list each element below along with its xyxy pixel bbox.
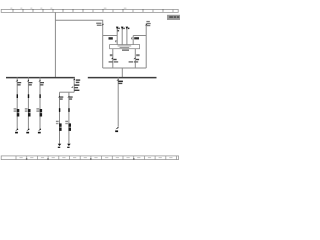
connector on branch drop (lower) xyxy=(71,86,73,88)
connector W4 xyxy=(58,96,60,98)
subcircuit bottom wire xyxy=(103,67,147,69)
relay subcircuit right rail xyxy=(145,24,147,69)
right output connector xyxy=(133,57,135,59)
fuse F1 body xyxy=(17,109,20,112)
arrow end xyxy=(67,144,71,146)
grey title box E1 xyxy=(167,15,180,20)
mid column F4 (x=59.5) xyxy=(56,92,63,148)
top terminal strip X1 xyxy=(1,9,178,12)
arrow end xyxy=(58,144,62,146)
input arrow stub 1 xyxy=(116,29,118,45)
module label below xyxy=(122,49,129,51)
fuse F5 label xyxy=(65,121,68,122)
wire: center drop to bus xyxy=(121,68,123,77)
control column below bus (x=118.2) xyxy=(115,77,123,132)
fuse F5 body xyxy=(69,123,72,126)
relay module box K1 xyxy=(110,45,140,49)
input arrow stub 2 xyxy=(121,29,123,45)
pin mark xyxy=(39,94,40,98)
connector W6 xyxy=(116,79,118,81)
wire: feeder horizontal to relay rail xyxy=(55,20,102,24)
left output value text xyxy=(109,61,119,62)
output drop left xyxy=(112,49,114,68)
connector W1 xyxy=(16,80,18,82)
fuse F4 label xyxy=(56,121,59,122)
pin label A2 xyxy=(134,37,139,39)
branch column F2 (x=28.4) xyxy=(25,77,33,133)
left rail connector label xyxy=(96,23,101,26)
connector W2 xyxy=(27,80,29,82)
pin mark xyxy=(59,108,60,112)
input arrow stub 3 xyxy=(126,29,128,45)
output drop right xyxy=(134,49,136,68)
connector W3 xyxy=(38,80,40,82)
pin mark xyxy=(68,108,69,112)
sheet-exit arrow xyxy=(115,127,118,130)
connector on stem 1 xyxy=(115,40,118,42)
bottom strip divider knobs xyxy=(26,158,135,160)
pin mark xyxy=(28,94,29,98)
connector on right pin xyxy=(131,37,134,39)
pin wire right (rail to A2) xyxy=(133,35,146,37)
fuse F4 body xyxy=(59,123,62,126)
connector on branch drop (upper) xyxy=(73,79,75,81)
sheet-exit arrow xyxy=(27,128,30,131)
mid column F5 (x=68.9) xyxy=(65,92,72,148)
fuse F3 label xyxy=(36,108,39,109)
module text xyxy=(118,45,132,48)
fuse F3 body xyxy=(40,109,43,112)
main bus segment 1 xyxy=(6,77,75,79)
right rail connector label xyxy=(146,21,150,26)
main bus segment 2 xyxy=(88,77,157,79)
branch horizontal wire xyxy=(60,91,75,93)
fuse F1 label xyxy=(14,108,17,109)
connector W5 xyxy=(67,96,69,98)
left output label xyxy=(110,54,113,56)
bottom terminal strip X2 xyxy=(1,156,178,160)
pin label A1 xyxy=(109,37,113,39)
left rail plug connector xyxy=(101,24,103,26)
sheet-exit arrow xyxy=(38,128,41,131)
right rail plug connector xyxy=(145,24,147,26)
sheet-exit arrow xyxy=(15,128,18,131)
right output value text xyxy=(129,61,139,62)
fuse F2 body xyxy=(28,109,31,112)
wire: feeder drop from top strip xyxy=(54,12,56,77)
top strip faint labels xyxy=(10,7,126,10)
pin mark xyxy=(17,94,18,98)
branch column F1 (x=17.2) xyxy=(14,77,22,133)
branch column F3 (x=40) xyxy=(36,77,44,133)
pin wire left (rail to A1) xyxy=(103,35,118,37)
bottom strip cell labels xyxy=(20,157,173,158)
fuse F2 label xyxy=(25,108,28,109)
branch drop at bus1 end xyxy=(73,77,75,92)
left output connector xyxy=(111,57,113,59)
right output label xyxy=(136,54,139,56)
relay subcircuit left rail xyxy=(102,24,104,69)
top strip divider knobs xyxy=(12,9,163,10)
